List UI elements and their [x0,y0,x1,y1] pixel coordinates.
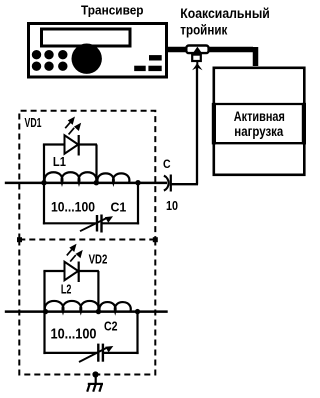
transceiver case [29,24,167,78]
svg-text:L1: L1 [53,154,66,169]
inductor L2 [45,301,99,312]
node tank1 left [41,180,46,185]
svg-text:C2: C2 [104,320,118,334]
tee center triangle [193,47,201,53]
LED VD1 triangle [65,135,79,153]
node tank2 left [43,309,48,314]
LED VD2 cathode bar [78,262,80,283]
node tank2 mid [96,309,101,314]
active load box [214,68,304,175]
wire tank2 left vertical to cap loop [43,312,45,355]
wire tank2 bottom left [43,352,97,354]
junction dot dashed left [17,237,22,242]
node tank1 right [135,180,140,185]
active load middle band [212,103,305,105]
dashed box 2 [19,240,155,375]
dashed divider between tanks [19,239,155,241]
svg-text:Активная: Активная [234,108,285,124]
svg-text:C1: C1 [111,199,127,214]
LED VD2 triangle [65,262,79,280]
capacitor C straight plate [170,175,172,192]
dashed box 1 [19,111,155,240]
wire diode2 branch right vertical [97,271,99,312]
wire diode2 branch left vertical [43,271,45,312]
wire diode branch right vertical [95,145,97,183]
wire tank1 right vertical to cap loop [137,183,139,225]
svg-text:L2: L2 [61,282,72,297]
capacitor C1 variable arrow [80,218,106,231]
wire main tank2 [5,310,168,313]
coaxial tee body [186,46,208,54]
node ground on dashed border [92,371,98,377]
capacitor C1 plates [96,215,98,232]
LED VD1 cathode bar [78,135,80,156]
wire transceiver to corner (thick coax) [166,47,253,52]
wire main tank1 [5,182,167,185]
node tank2 right [135,309,140,314]
wire diode2 branch top right [79,270,99,272]
wire diode branch top left [43,143,65,145]
svg-text:тройник: тройник [180,21,228,37]
transceiver display [42,29,131,46]
svg-text:10...100: 10...100 [51,325,97,342]
svg-text:Трансивер: Трансивер [81,3,144,18]
capacitor C2 plates [97,344,99,362]
LED VD2 emission arrows [67,245,82,261]
wire tank1 bottom left [43,222,96,224]
wire corner down to active load [253,47,259,66]
svg-text:Коаксиальный: Коаксиальный [180,5,269,21]
wire diode branch left vertical [43,145,45,183]
capacitor C2 variable arrow [79,348,106,362]
wire tank2 bottom right [103,352,139,354]
svg-text:10: 10 [166,198,178,213]
plug arrow into tee [196,62,198,65]
wire tank1 bottom right [101,222,139,224]
capacitor C arc plate [164,176,169,191]
svg-text:10...100: 10...100 [51,200,95,215]
tee lower square [192,55,201,61]
svg-text:C: C [163,159,171,171]
inductor L1 [45,172,97,183]
svg-text:VD1: VD1 [25,115,42,130]
transceiver tuning knob [72,44,102,74]
LED VD1 emission arrows [65,118,80,134]
wire tank2 right vertical to cap loop [136,312,138,355]
transceiver buttons (6 dots) [32,50,68,71]
svg-text:нагрузка: нагрузка [234,123,283,139]
svg-text:VD2: VD2 [89,251,108,266]
wire tank1 left vertical to cap loop [43,183,45,225]
ground symbol [87,375,103,392]
transceiver bars [134,55,162,71]
junction dot dashed right [153,237,158,242]
wire diode2 branch top left [43,270,64,272]
node tank1 mid [94,180,99,185]
wire from plug arrow down to cap C [196,65,198,185]
wire cap C to tee drop [171,183,198,185]
wire diode branch top right [79,143,97,145]
